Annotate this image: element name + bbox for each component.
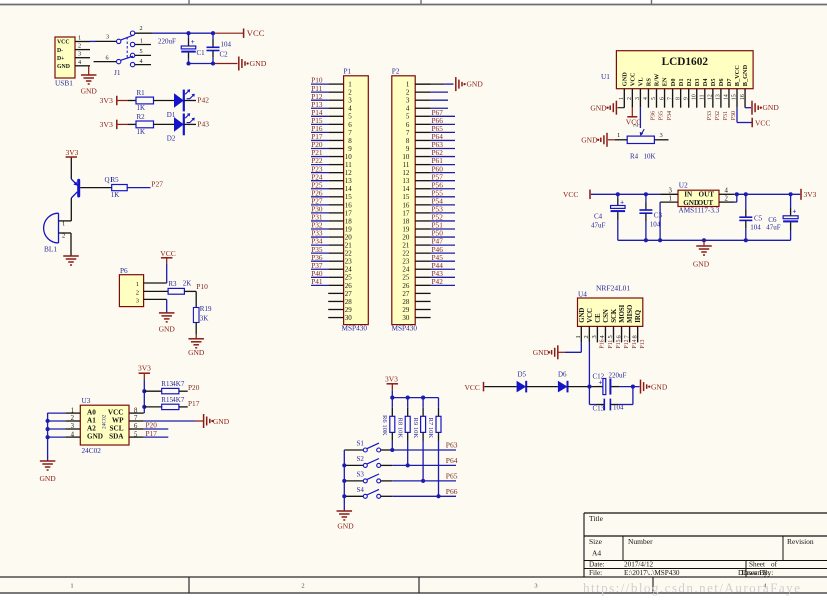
svg-text:6: 6 xyxy=(348,121,352,129)
svg-text:7: 7 xyxy=(348,129,352,137)
svg-text:D6: D6 xyxy=(718,78,725,86)
svg-text:Title: Title xyxy=(589,514,604,523)
svg-text:2: 2 xyxy=(136,289,139,296)
svg-text:P17: P17 xyxy=(146,429,158,438)
svg-text:15: 15 xyxy=(732,94,738,100)
svg-text:RS: RS xyxy=(646,78,653,87)
svg-text:J1: J1 xyxy=(114,68,121,77)
svg-text:BL1: BL1 xyxy=(44,244,57,253)
svg-text:R19: R19 xyxy=(200,305,212,313)
svg-text:GND: GND xyxy=(622,72,629,86)
svg-text:P13: P13 xyxy=(640,339,646,348)
svg-text:GND: GND xyxy=(57,64,70,70)
svg-text:13: 13 xyxy=(402,177,410,185)
svg-text:24C02: 24C02 xyxy=(102,414,108,429)
svg-text:3: 3 xyxy=(591,335,598,338)
svg-text:GND: GND xyxy=(579,308,586,323)
svg-text:3: 3 xyxy=(71,423,75,430)
svg-text:C12: C12 xyxy=(593,372,605,380)
svg-text:P36: P36 xyxy=(650,111,657,121)
svg-text:GND: GND xyxy=(188,348,205,357)
svg-text:8: 8 xyxy=(675,97,681,100)
svg-text:6: 6 xyxy=(659,97,665,100)
svg-text:11: 11 xyxy=(700,94,706,100)
svg-text:18: 18 xyxy=(345,217,353,225)
svg-text:16: 16 xyxy=(345,201,353,209)
svg-text:GND: GND xyxy=(590,103,607,112)
svg-text:2: 2 xyxy=(634,124,640,127)
svg-text:A1: A1 xyxy=(87,417,96,425)
svg-text:+: + xyxy=(792,207,796,215)
svg-text:7: 7 xyxy=(406,129,410,137)
svg-text:D0: D0 xyxy=(670,78,677,86)
svg-text:3: 3 xyxy=(348,97,352,105)
svg-text:2017/4/12: 2017/4/12 xyxy=(624,561,654,569)
svg-text:R4: R4 xyxy=(630,152,639,160)
svg-text:R1: R1 xyxy=(137,89,146,97)
svg-text:2: 2 xyxy=(725,195,729,202)
svg-text:U3: U3 xyxy=(82,396,91,405)
svg-text:104: 104 xyxy=(221,41,232,49)
svg-text:26: 26 xyxy=(402,282,410,290)
svg-text:P41: P41 xyxy=(311,277,323,286)
svg-text:3V3: 3V3 xyxy=(138,363,151,372)
svg-text:GND: GND xyxy=(763,103,780,112)
svg-text:7: 7 xyxy=(134,415,138,422)
svg-text:D-: D- xyxy=(57,48,63,54)
svg-text:12: 12 xyxy=(345,169,353,177)
svg-text:+: + xyxy=(191,38,195,46)
svg-text:9: 9 xyxy=(406,145,410,153)
svg-text:1: 1 xyxy=(617,132,620,139)
svg-text:8: 8 xyxy=(406,137,410,145)
svg-text:24: 24 xyxy=(402,266,410,274)
svg-text:File:: File: xyxy=(589,569,602,577)
svg-text:5: 5 xyxy=(651,97,657,100)
svg-text:R5: R5 xyxy=(111,176,120,184)
svg-text:1K: 1K xyxy=(137,104,146,112)
svg-text:AMS1117-3.3: AMS1117-3.3 xyxy=(679,207,720,215)
svg-text:MISO: MISO xyxy=(627,305,634,323)
svg-text:P33: P33 xyxy=(706,111,713,121)
svg-text:Size: Size xyxy=(589,537,603,546)
svg-text:8: 8 xyxy=(348,137,352,145)
svg-text:28: 28 xyxy=(345,298,353,306)
svg-text:5: 5 xyxy=(607,335,614,338)
svg-text:U4: U4 xyxy=(578,290,587,299)
svg-text:P17: P17 xyxy=(188,399,200,408)
svg-text:8: 8 xyxy=(134,407,138,414)
svg-text:P11: P11 xyxy=(608,340,614,349)
svg-text:21: 21 xyxy=(402,242,410,250)
svg-text:SCL: SCL xyxy=(110,425,124,433)
svg-text:21: 21 xyxy=(345,242,353,250)
svg-text:9: 9 xyxy=(348,145,352,153)
svg-text:D2: D2 xyxy=(686,78,693,86)
svg-text:4: 4 xyxy=(725,187,729,194)
svg-text:1: 1 xyxy=(619,97,625,100)
svg-text:D1: D1 xyxy=(678,78,685,86)
svg-text:3V3: 3V3 xyxy=(100,96,114,105)
svg-text:2: 2 xyxy=(71,415,75,422)
svg-text:CSN: CSN xyxy=(603,309,610,323)
svg-text:104: 104 xyxy=(650,221,661,229)
svg-text:P16: P16 xyxy=(600,339,606,348)
svg-text:GND: GND xyxy=(39,474,56,483)
svg-text:D2: D2 xyxy=(167,135,176,143)
svg-text:C4: C4 xyxy=(594,213,603,221)
svg-text:104: 104 xyxy=(750,224,761,232)
svg-text:A0: A0 xyxy=(87,409,96,417)
svg-text:A4: A4 xyxy=(592,549,601,558)
svg-text:D5: D5 xyxy=(710,78,717,86)
svg-text:P6: P6 xyxy=(120,266,128,275)
svg-text:3: 3 xyxy=(78,51,81,58)
svg-text:VCC: VCC xyxy=(755,119,770,128)
svg-text:3V3: 3V3 xyxy=(100,120,114,129)
svg-text:3: 3 xyxy=(635,97,641,100)
svg-text:P42: P42 xyxy=(432,277,444,286)
svg-text:R/W: R/W xyxy=(654,73,661,86)
svg-text:OUT: OUT xyxy=(699,191,715,199)
svg-text:P35: P35 xyxy=(658,111,665,121)
svg-text:13: 13 xyxy=(716,94,722,100)
svg-text:11: 11 xyxy=(403,161,410,169)
svg-text:3V3: 3V3 xyxy=(66,148,79,157)
svg-text:Date:: Date: xyxy=(589,561,605,569)
svg-text:29: 29 xyxy=(345,306,353,314)
svg-text:D7: D7 xyxy=(726,78,733,86)
svg-text:D3: D3 xyxy=(694,78,701,86)
svg-text:6: 6 xyxy=(406,121,410,129)
svg-text:Sheet: Sheet xyxy=(749,561,765,569)
svg-text:27: 27 xyxy=(345,290,353,298)
svg-text:1K: 1K xyxy=(111,191,120,199)
svg-text:220uF: 220uF xyxy=(609,372,627,380)
svg-text:23: 23 xyxy=(345,258,353,266)
svg-text:4: 4 xyxy=(78,59,81,66)
svg-text:12: 12 xyxy=(708,94,714,100)
svg-text:24C02: 24C02 xyxy=(82,446,102,455)
svg-text:S1: S1 xyxy=(357,440,365,448)
svg-text:2: 2 xyxy=(406,89,410,97)
svg-text:D4: D4 xyxy=(702,78,709,87)
svg-text:25: 25 xyxy=(345,274,353,282)
svg-text:2: 2 xyxy=(627,97,633,100)
svg-text:MSP430: MSP430 xyxy=(392,324,418,333)
svg-text:4: 4 xyxy=(140,58,143,65)
svg-text:3V3: 3V3 xyxy=(804,190,817,199)
svg-text:P12: P12 xyxy=(624,339,630,348)
svg-text:6: 6 xyxy=(615,335,622,338)
svg-text:USB1: USB1 xyxy=(55,79,73,88)
svg-text:VCC: VCC xyxy=(630,72,637,86)
svg-text:R9 10K: R9 10K xyxy=(412,418,419,439)
svg-text:1: 1 xyxy=(62,220,65,227)
svg-text:47uF: 47uF xyxy=(766,224,781,232)
svg-text:P42: P42 xyxy=(197,95,209,104)
svg-text:VCC: VCC xyxy=(160,249,175,258)
svg-text:25: 25 xyxy=(402,274,410,282)
svg-text:10K: 10K xyxy=(644,152,656,160)
svg-text:GND: GND xyxy=(337,522,354,531)
svg-text:4: 4 xyxy=(71,431,75,438)
svg-text:VCC: VCC xyxy=(57,40,70,46)
svg-text:GND: GND xyxy=(467,80,484,89)
svg-text:23: 23 xyxy=(402,258,410,266)
svg-text:18: 18 xyxy=(402,217,410,225)
svg-text:220uF: 220uF xyxy=(158,37,176,45)
svg-text:3V3: 3V3 xyxy=(385,374,398,383)
svg-text:1: 1 xyxy=(78,35,81,42)
svg-text:MSP430: MSP430 xyxy=(342,324,368,333)
svg-text:LCD1602: LCD1602 xyxy=(662,56,709,68)
svg-text:3: 3 xyxy=(534,583,537,590)
svg-text:B_GND: B_GND xyxy=(742,64,749,86)
svg-text:14: 14 xyxy=(345,185,353,193)
svg-text:Drawn By:: Drawn By: xyxy=(742,569,774,577)
svg-text:B_VCC: B_VCC xyxy=(734,65,741,86)
svg-text:47uF: 47uF xyxy=(591,222,606,230)
svg-text:VCC: VCC xyxy=(587,308,594,323)
svg-text:P14: P14 xyxy=(632,339,638,348)
svg-text:4: 4 xyxy=(406,105,410,113)
svg-text:D5: D5 xyxy=(518,371,527,379)
svg-text:P64: P64 xyxy=(446,456,458,465)
svg-text:P2: P2 xyxy=(392,66,400,75)
svg-text:1: 1 xyxy=(348,81,352,89)
svg-text:6: 6 xyxy=(106,54,109,61)
svg-text:26: 26 xyxy=(345,282,353,290)
svg-text:2: 2 xyxy=(348,89,352,97)
svg-text:12: 12 xyxy=(402,169,410,177)
svg-text:1: 1 xyxy=(70,583,73,590)
svg-text:5: 5 xyxy=(140,48,143,55)
svg-text:13: 13 xyxy=(345,177,353,185)
svg-text:R7 10K: R7 10K xyxy=(427,418,434,439)
svg-text:2: 2 xyxy=(78,43,81,50)
svg-text:2: 2 xyxy=(583,335,590,338)
svg-text:R2: R2 xyxy=(137,113,146,121)
svg-text:P63: P63 xyxy=(446,441,458,450)
svg-text:VCC: VCC xyxy=(563,190,578,199)
svg-text:10: 10 xyxy=(691,94,697,100)
svg-text:3K: 3K xyxy=(200,315,209,323)
svg-text:7: 7 xyxy=(667,97,673,100)
svg-text:19: 19 xyxy=(402,225,410,233)
svg-text:16: 16 xyxy=(740,94,746,100)
svg-text:VCC: VCC xyxy=(465,383,480,392)
svg-text:3: 3 xyxy=(669,187,673,194)
svg-text:A2: A2 xyxy=(87,425,96,433)
svg-text:WP: WP xyxy=(112,417,124,425)
svg-text:IRQ: IRQ xyxy=(635,310,642,323)
svg-text:U1: U1 xyxy=(601,72,610,81)
svg-text:C1: C1 xyxy=(197,49,206,57)
svg-text:P20: P20 xyxy=(188,383,200,392)
svg-text:P31: P31 xyxy=(722,111,729,121)
svg-text:C13: C13 xyxy=(593,405,605,413)
svg-text:S2: S2 xyxy=(357,455,365,463)
svg-text:U2: U2 xyxy=(679,181,688,190)
svg-text:GND: GND xyxy=(159,324,176,333)
svg-text:5: 5 xyxy=(134,431,138,438)
svg-text:28: 28 xyxy=(402,298,410,306)
svg-text:NRF24L01: NRF24L01 xyxy=(596,284,630,293)
svg-text:D6: D6 xyxy=(558,371,567,379)
svg-text:P43: P43 xyxy=(197,119,209,128)
svg-text:P65: P65 xyxy=(446,472,458,481)
svg-text:15: 15 xyxy=(402,193,410,201)
svg-text:2K: 2K xyxy=(183,279,192,287)
svg-text:C2: C2 xyxy=(220,51,229,59)
svg-text:GND: GND xyxy=(651,382,668,391)
svg-text:29: 29 xyxy=(402,306,410,314)
svg-text:R3: R3 xyxy=(168,280,177,288)
svg-text:R6 10K: R6 10K xyxy=(381,415,388,436)
svg-text:1: 1 xyxy=(140,38,143,45)
svg-text:GND: GND xyxy=(533,348,550,357)
svg-text:P10: P10 xyxy=(196,282,208,291)
svg-text:17: 17 xyxy=(402,209,410,217)
svg-text:4: 4 xyxy=(348,105,352,113)
svg-text:4K7: 4K7 xyxy=(172,396,185,404)
svg-text:GND: GND xyxy=(213,417,230,426)
svg-text:VL: VL xyxy=(638,77,645,86)
svg-text:GND: GND xyxy=(581,135,598,144)
svg-text:+: + xyxy=(620,198,624,206)
svg-text:P1: P1 xyxy=(344,66,352,75)
svg-text:1K: 1K xyxy=(137,128,146,136)
svg-text:D+: D+ xyxy=(57,56,65,62)
svg-text:20: 20 xyxy=(345,233,353,241)
svg-text:4K7: 4K7 xyxy=(172,380,185,388)
svg-text:6: 6 xyxy=(134,423,138,430)
svg-text:5: 5 xyxy=(406,113,410,121)
svg-text:1: 1 xyxy=(406,81,410,89)
svg-text:C3: C3 xyxy=(654,211,663,219)
svg-text:R8 10K: R8 10K xyxy=(396,418,403,439)
svg-text:SDA: SDA xyxy=(109,433,124,441)
svg-text:3: 3 xyxy=(106,34,109,41)
svg-text:C5: C5 xyxy=(754,215,763,223)
svg-text:3: 3 xyxy=(660,132,663,139)
svg-text:10: 10 xyxy=(402,153,410,161)
svg-text:E:\2017\..\MSP430: E:\2017\..\MSP430 xyxy=(624,569,680,577)
svg-text:3: 3 xyxy=(406,97,410,105)
svg-text:SCK: SCK xyxy=(611,308,618,323)
svg-text:P15: P15 xyxy=(616,339,622,348)
svg-text:27: 27 xyxy=(402,290,410,298)
svg-text:4: 4 xyxy=(643,97,649,100)
svg-text:Revision: Revision xyxy=(787,537,814,546)
svg-text:P27: P27 xyxy=(151,179,163,188)
svg-text:Number: Number xyxy=(628,537,653,546)
svg-text:30: 30 xyxy=(402,314,410,322)
svg-text:GND: GND xyxy=(250,59,267,68)
svg-text:S4: S4 xyxy=(357,486,365,494)
svg-text:15: 15 xyxy=(345,193,353,201)
svg-text:P66: P66 xyxy=(446,487,458,496)
svg-text:CE: CE xyxy=(595,313,602,323)
svg-text:17: 17 xyxy=(345,209,353,217)
svg-text:P32: P32 xyxy=(714,111,721,121)
svg-text:11: 11 xyxy=(345,161,352,169)
svg-text:24: 24 xyxy=(345,266,353,274)
svg-text:IN: IN xyxy=(684,191,693,199)
svg-text:GND: GND xyxy=(81,86,98,95)
svg-text:14: 14 xyxy=(724,94,730,100)
svg-text:14: 14 xyxy=(402,185,410,193)
svg-text:https://blog.csdn.net/AuroraFa: https://blog.csdn.net/AuroraFaye xyxy=(583,580,801,595)
svg-text:2: 2 xyxy=(301,583,304,590)
svg-text:9: 9 xyxy=(683,97,689,100)
svg-text:22: 22 xyxy=(345,250,353,258)
svg-text:P30: P30 xyxy=(730,111,737,121)
svg-text:20: 20 xyxy=(402,233,410,241)
svg-text:1: 1 xyxy=(136,281,139,288)
svg-text:P34: P34 xyxy=(666,111,673,121)
svg-text:22: 22 xyxy=(402,250,410,258)
svg-text:104: 104 xyxy=(613,404,624,412)
svg-text:30: 30 xyxy=(345,314,353,322)
svg-text:16: 16 xyxy=(402,201,410,209)
svg-text:2: 2 xyxy=(140,25,143,32)
svg-text:MOSI: MOSI xyxy=(619,304,626,322)
svg-text:2: 2 xyxy=(62,233,65,240)
svg-text:EN: EN xyxy=(662,77,669,86)
svg-text:1: 1 xyxy=(575,335,582,338)
svg-text:of: of xyxy=(771,561,778,569)
svg-text:10: 10 xyxy=(345,153,353,161)
svg-text:GND: GND xyxy=(693,260,710,269)
svg-text:3: 3 xyxy=(136,297,139,304)
svg-text:1: 1 xyxy=(71,407,74,414)
svg-text:S3: S3 xyxy=(357,471,365,479)
svg-text:VCC: VCC xyxy=(247,28,265,38)
svg-text:19: 19 xyxy=(345,225,353,233)
svg-text:1: 1 xyxy=(669,195,672,202)
svg-text:8: 8 xyxy=(631,335,638,338)
svg-text:GND: GND xyxy=(87,433,103,441)
svg-text:5: 5 xyxy=(348,113,352,121)
svg-text:VCC: VCC xyxy=(108,409,124,417)
